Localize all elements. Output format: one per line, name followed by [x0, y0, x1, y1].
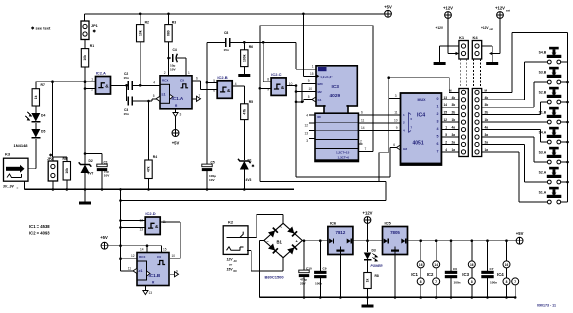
svg-text:10: 10	[394, 118, 398, 122]
svg-text:11: 11	[128, 266, 132, 270]
svg-text:R3: R3	[172, 21, 176, 25]
resistor R1	[81, 49, 88, 67]
svg-text:6: 6	[361, 111, 363, 115]
wire K4 3a to S3.A	[482, 136, 534, 138]
wire D2 to rail	[84, 173, 86, 189]
svg-text:1,3CT=0: 1,3CT=0	[338, 156, 350, 160]
svg-text:3: 3	[395, 94, 397, 98]
wire IC2.A out	[111, 84, 127, 86]
svg-text:RCX: RCX	[139, 255, 145, 259]
wire lower return line	[121, 200, 387, 202]
svg-text:✱ see text: ✱ see text	[31, 26, 51, 31]
wire C4 to pin1	[185, 58, 187, 76]
svg-text:11: 11	[394, 111, 398, 115]
wire left drop	[120, 189, 122, 271]
gate IC2.A	[96, 77, 111, 95]
wire K2 to bridge top	[247, 236, 257, 238]
capacitor C3	[127, 97, 129, 106]
svg-text:~: ~	[280, 225, 283, 230]
svg-text:8: 8	[506, 280, 508, 284]
svg-text:4b: 4b	[452, 96, 456, 100]
svg-text:3: 3	[180, 113, 182, 117]
IC1.B pin11	[121, 270, 134, 272]
svg-text:S2.B: S2.B	[539, 91, 547, 95]
svg-text:12: 12	[443, 118, 447, 122]
svg-text:1,2+/1,3−: 1,2+/1,3−	[320, 75, 333, 79]
svg-text:1k: 1k	[366, 279, 370, 283]
wire K4 3b to S3.B	[482, 106, 534, 108]
supply +5V lower	[101, 242, 108, 249]
wire K1 gnd	[440, 45, 464, 47]
svg-text:IC1.A: IC1.A	[172, 96, 184, 101]
svg-text:8: 8	[471, 280, 473, 284]
IC3 pin4	[309, 114, 315, 116]
wire C8 right net	[230, 41, 296, 43]
svg-text:1: 1	[445, 126, 447, 130]
svg-text:3: 3	[437, 120, 439, 124]
svg-text:+12V: +12V	[495, 6, 505, 11]
wire IC2.A pin2 net	[85, 88, 96, 90]
svg-text:15V: 15V	[227, 268, 234, 272]
ground rail upper	[25, 188, 295, 190]
wire IC4 to K1 3b	[441, 106, 459, 108]
wire C3 to IC1.A pin5	[132, 100, 152, 102]
svg-text:DC: DC	[234, 270, 238, 273]
wire K3 sleeve to rail	[24, 181, 26, 189]
wire IC4 to K1 3a	[441, 136, 459, 138]
svg-text:ext: ext	[490, 28, 494, 31]
svg-text:090173 - 11: 090173 - 11	[537, 304, 556, 308]
svg-text:+12V: +12V	[363, 211, 373, 216]
svg-text:3: 3	[306, 139, 308, 143]
wire R1 down to node	[84, 67, 86, 82]
IC3 pin3	[309, 137, 315, 139]
svg-text:IC4: IC4	[497, 272, 504, 277]
svg-text:47k: 47k	[242, 109, 246, 115]
svg-text:1a: 1a	[485, 148, 489, 152]
wire C2 to IC1.A pin4	[132, 84, 160, 86]
wire JP1 JP2 drop	[52, 82, 54, 157]
svg-text:D4: D4	[41, 114, 45, 118]
svg-text:JP1: JP1	[91, 24, 98, 28]
svg-text:CX: CX	[157, 255, 161, 259]
wire R3 to pin2	[168, 42, 170, 76]
counter IC3 lower	[315, 113, 358, 161]
svg-text:S2.A: S2.A	[539, 171, 547, 175]
svg-text:IC2 = 4093: IC2 = 4093	[29, 231, 50, 236]
svg-text:K3: K3	[5, 152, 11, 157]
svg-text:6: 6	[196, 77, 198, 81]
svg-text:C7: C7	[490, 267, 494, 271]
wire IC3 pin1 feed	[295, 42, 297, 69]
svg-text:IC6: IC6	[330, 221, 337, 226]
svg-text:IC2.C: IC2.C	[271, 72, 281, 77]
capacitor C7	[487, 241, 489, 272]
wire IC4 to K1 4b	[441, 99, 459, 101]
wire JP1 to R1	[84, 40, 86, 49]
diode D1 zener	[243, 120, 245, 160]
wire Q3 to A2	[358, 130, 400, 132]
svg-text:10V: 10V	[170, 68, 176, 72]
IC1.B pin12	[121, 258, 138, 260]
svg-text:4b: 4b	[485, 96, 489, 100]
svg-text:7812: 7812	[336, 230, 346, 235]
IC1.A pin6 out	[192, 80, 201, 82]
bridge rectifier B1	[264, 223, 302, 257]
svg-text:100n: 100n	[490, 281, 497, 285]
wire IC3 pin9 feed	[302, 83, 316, 85]
mux IC4 4051	[401, 93, 442, 165]
gate IC2.D	[145, 217, 160, 235]
svg-text:C4: C4	[173, 48, 177, 52]
svg-text:2: 2	[164, 71, 166, 75]
connector K1 main	[459, 89, 468, 157]
wire bridge plus	[302, 240, 328, 242]
svg-text:4051: 4051	[413, 141, 424, 147]
svg-text:4V3: 4V3	[246, 178, 252, 182]
svg-text:15n: 15n	[124, 112, 129, 116]
gate IC2.B	[217, 81, 232, 99]
svg-text:G1: G1	[318, 98, 322, 102]
resistor R7	[35, 82, 37, 89]
svg-text:IC1 = 4538: IC1 = 4538	[29, 224, 50, 229]
svg-text:2: 2	[445, 140, 447, 144]
svg-text:13: 13	[304, 131, 308, 135]
gate IC2.C	[271, 78, 286, 96]
IC1.A pin3	[175, 109, 177, 113]
svg-text:CX: CX	[180, 78, 184, 82]
resistor R3	[168, 14, 170, 25]
wire Q1 to A0	[358, 114, 400, 116]
ground R6	[243, 67, 245, 74]
IC3 pin13	[309, 130, 315, 132]
wire C1 to rail	[101, 171, 103, 190]
svg-text:680: 680	[167, 30, 171, 36]
svg-text:6: 6	[393, 143, 395, 147]
wire K4 gnd	[477, 45, 492, 47]
svg-text:4: 4	[437, 127, 439, 131]
svg-text:14: 14	[361, 126, 365, 130]
svg-text:4a: 4a	[452, 126, 456, 130]
resistor R5	[241, 104, 248, 120]
svg-text:3a: 3a	[485, 133, 489, 137]
svg-text:3a: 3a	[452, 133, 456, 137]
wire IC3 pin15 feed	[302, 14, 304, 77]
wire R9 to rail	[66, 180, 68, 189]
monostable IC1.A	[160, 76, 192, 109]
svg-text:IC5: IC5	[385, 221, 392, 226]
svg-text:2a: 2a	[452, 140, 456, 144]
regulator IC6 7812	[328, 227, 353, 255]
svg-text:R1: R1	[90, 44, 94, 48]
svg-text:+12V: +12V	[443, 6, 453, 11]
svg-text:9: 9	[396, 126, 398, 130]
IC1.B pin9	[170, 273, 175, 275]
supply +12V mid	[364, 217, 371, 224]
wire K4 2a to S2.A	[482, 143, 525, 145]
svg-text:15n: 15n	[124, 76, 129, 80]
svg-text:7: 7	[199, 94, 201, 98]
svg-text:1b: 1b	[485, 118, 489, 122]
supply +12V	[445, 12, 452, 19]
svg-text:15n: 15n	[224, 48, 229, 52]
wire IC2.D out loop	[160, 221, 180, 223]
capacitor C9	[319, 241, 321, 272]
svg-text:S1.B: S1.B	[539, 111, 547, 115]
svg-text:G8: G8	[403, 147, 407, 151]
wire carry feedback	[259, 26, 261, 182]
svg-text:1b: 1b	[452, 118, 456, 122]
svg-text:1,2CT=15: 1,2CT=15	[336, 151, 350, 155]
capacitor C5	[206, 82, 208, 166]
diode D4	[35, 106, 37, 113]
svg-text:15: 15	[163, 248, 167, 252]
svg-text:K1: K1	[459, 35, 465, 40]
IC3 pin7	[358, 151, 373, 153]
svg-text:0: 0	[437, 97, 439, 101]
svg-text:IC2.D: IC2.D	[145, 211, 155, 216]
wire C8 left drop	[206, 42, 208, 82]
wire IC4 to K1 2b	[441, 114, 459, 116]
svg-text:13: 13	[443, 96, 447, 100]
wire IC2.D inputs	[121, 220, 146, 222]
svg-text:S3.B: S3.B	[539, 71, 547, 75]
svg-text:4a: 4a	[485, 126, 489, 130]
svg-text:14: 14	[140, 248, 144, 252]
svg-text:4: 4	[445, 148, 447, 152]
resistor R2	[139, 14, 141, 25]
wire IC6 gnd	[339, 252, 341, 298]
wire +12Vext drop	[499, 18, 501, 53]
svg-text:C6: C6	[453, 267, 457, 271]
svg-text:15: 15	[443, 111, 447, 115]
svg-text:2: 2	[437, 112, 439, 116]
resistor R6	[243, 42, 245, 50]
svg-text:D2: D2	[89, 159, 93, 163]
svg-text:10k: 10k	[138, 30, 142, 36]
IC1.B pin13	[144, 286, 146, 291]
svg-text:ext: ext	[506, 9, 510, 13]
svg-text:3V...9V: 3V...9V	[3, 185, 15, 189]
wire +12V drop	[447, 18, 449, 53]
svg-text:13: 13	[139, 228, 143, 232]
svg-text:16: 16	[419, 263, 423, 267]
svg-text:+5V: +5V	[100, 235, 108, 240]
wire K4 2b to S2.B	[482, 114, 541, 116]
ground symbol upper	[84, 189, 86, 201]
svg-text:4V7: 4V7	[88, 172, 94, 176]
svg-text:S1.A: S1.A	[539, 191, 547, 195]
diode D2 zener	[79, 162, 92, 166]
svg-text:IC1: IC1	[411, 272, 418, 277]
svg-text:IC1.B: IC1.B	[149, 273, 161, 278]
svg-text:AC: AC	[234, 260, 238, 263]
counter IC3 upper	[316, 66, 357, 106]
svg-text:K2: K2	[228, 220, 234, 225]
svg-text:7: 7	[514, 280, 516, 284]
supply +5V right	[516, 237, 523, 244]
IC3 pin2 stub	[358, 143, 362, 145]
svg-text:15: 15	[310, 72, 314, 76]
svg-text:5: 5	[153, 94, 155, 98]
wire JP2 to rail	[52, 181, 54, 189]
wire K4 1b to S1.B	[482, 121, 545, 123]
supply +5V top	[385, 10, 392, 17]
svg-text:1: 1	[91, 78, 93, 82]
svg-text:4: 4	[306, 114, 308, 118]
wire D1 to rail	[243, 170, 245, 190]
svg-text:B1: B1	[277, 240, 283, 245]
svg-text:10V: 10V	[104, 174, 110, 178]
svg-text:7805: 7805	[390, 230, 400, 235]
svg-text:B/D: B/D	[318, 82, 324, 86]
svg-text:1N4148: 1N4148	[14, 143, 29, 148]
wire IC3 pin10 feed	[296, 91, 316, 93]
wire IC4 to K1 4a	[441, 129, 459, 131]
svg-text:1a: 1a	[452, 148, 456, 152]
svg-text:IC3: IC3	[462, 272, 469, 277]
svg-text:=: =	[17, 186, 19, 190]
capacitor C10	[303, 241, 305, 272]
svg-text:S3.A: S3.A	[539, 151, 547, 155]
svg-text:D3: D3	[372, 249, 376, 253]
svg-text:+5V: +5V	[384, 4, 392, 9]
svg-text:2b: 2b	[452, 111, 456, 115]
svg-text:IC4: IC4	[417, 113, 425, 119]
jumper JP1	[84, 14, 86, 21]
wire +5V to bus	[108, 245, 162, 247]
svg-text:14: 14	[434, 263, 438, 267]
svg-text:R8: R8	[375, 274, 379, 278]
svg-text:100n: 100n	[454, 281, 461, 285]
svg-text:S4.A: S4.A	[539, 131, 547, 135]
wire IC4 to K1 1a	[441, 151, 459, 153]
decoupling IC4	[506, 241, 508, 261]
wire +5V top rail	[85, 13, 385, 15]
svg-text:16: 16	[470, 263, 474, 267]
IC1.B pin14	[146, 246, 148, 253]
svg-text:5: 5	[445, 133, 447, 137]
supply +12V ext	[497, 12, 504, 19]
svg-text:POWER: POWER	[371, 264, 384, 268]
svg-text:5: 5	[308, 95, 310, 99]
svg-text:11: 11	[361, 118, 365, 122]
wire K4 4a to S4.A	[482, 129, 541, 131]
svg-text:100n: 100n	[315, 282, 322, 286]
svg-text:9: 9	[308, 79, 310, 83]
svg-text:12: 12	[131, 254, 135, 258]
decoupling IC1	[420, 241, 422, 261]
connector K1 K4 dashed	[459, 59, 461, 89]
svg-text:R2: R2	[145, 21, 149, 25]
IC1.B pin15	[161, 246, 163, 253]
power ground rail	[260, 296, 516, 298]
svg-text:K4: K4	[473, 35, 479, 40]
svg-text:10V: 10V	[209, 178, 215, 182]
svg-text:RCX: RCX	[162, 78, 168, 82]
svg-text:7: 7	[365, 147, 367, 151]
monostable IC1.B	[137, 253, 169, 286]
svg-text:6: 6	[213, 88, 215, 92]
wire 5V rail	[408, 240, 517, 242]
wire IC2.C out	[286, 85, 296, 87]
svg-text:8: 8	[420, 280, 422, 284]
svg-text:2: 2	[360, 140, 362, 144]
svg-text:10k: 10k	[65, 168, 69, 174]
wire C5 to rail	[206, 171, 208, 190]
svg-text:M2: M2	[318, 90, 322, 94]
svg-text:7: 7	[435, 280, 437, 284]
svg-text:1: 1	[188, 71, 190, 75]
svg-text:1: 1	[312, 65, 314, 69]
svg-text:25V: 25V	[300, 282, 306, 286]
wire M row to button bus	[482, 91, 512, 93]
wire bridge minus	[260, 240, 264, 242]
svg-text:14: 14	[443, 103, 447, 107]
wire common to K1 M row	[388, 78, 390, 99]
counter IC3 neck	[324, 106, 348, 116]
svg-text:16: 16	[505, 263, 509, 267]
wire IC5 gnd	[394, 252, 396, 298]
supply +5V at IC1.A	[175, 116, 177, 130]
wire K2 to bridge bottom	[247, 249, 251, 251]
wire IC4 to K1 2a	[441, 143, 459, 145]
svg-text:S4.B: S4.B	[539, 51, 547, 55]
svg-text:B80C1500: B80C1500	[265, 275, 285, 280]
svg-text:MUX: MUX	[418, 98, 427, 102]
IC3 pin12	[309, 122, 315, 124]
svg-text:1k: 1k	[34, 95, 38, 99]
svg-text:2a: 2a	[485, 140, 489, 144]
svg-text:IC2.A: IC2.A	[96, 71, 106, 76]
svg-text:R5: R5	[249, 100, 253, 104]
diode D3 LED	[367, 241, 369, 252]
resistor R4	[148, 101, 150, 160]
svg-text:5: 5	[437, 134, 439, 138]
svg-text:IC2: IC2	[427, 272, 434, 277]
svg-text:IC2.B: IC2.B	[217, 75, 227, 80]
svg-text:C9: C9	[323, 267, 327, 271]
wire input node A	[36, 81, 96, 83]
svg-text:C8: C8	[224, 31, 228, 35]
decoupling IC2	[435, 241, 437, 261]
wire pin9 to bus	[260, 87, 271, 89]
svg-text:9: 9	[176, 270, 178, 274]
svg-text:R7: R7	[41, 83, 45, 87]
svg-text:10k: 10k	[83, 55, 87, 61]
svg-text:3b: 3b	[452, 103, 456, 107]
svg-text:12: 12	[304, 124, 308, 128]
svg-text:8: 8	[267, 78, 269, 82]
wire Q2 to A1	[358, 122, 400, 124]
decoupling IC3	[471, 241, 473, 261]
svg-text:2b: 2b	[485, 111, 489, 115]
ground symbol power	[367, 297, 369, 304]
wire IC2.B out to R5	[232, 85, 244, 87]
svg-text:D1: D1	[248, 159, 252, 163]
resistor R8	[367, 261, 369, 273]
wire D2 C1 branch	[84, 82, 86, 164]
svg-text:12V: 12V	[227, 258, 234, 262]
wire IC4 to K1 1b	[441, 121, 459, 123]
wire pin8 feed	[262, 42, 264, 81]
svg-text:+12V: +12V	[481, 26, 489, 30]
svg-text:+12V: +12V	[436, 26, 444, 30]
svg-text:R9: R9	[63, 157, 67, 161]
wire K4 1a to S1.A	[482, 151, 519, 153]
svg-text:4: 4	[153, 81, 155, 85]
wire inhibit line	[296, 176, 390, 178]
